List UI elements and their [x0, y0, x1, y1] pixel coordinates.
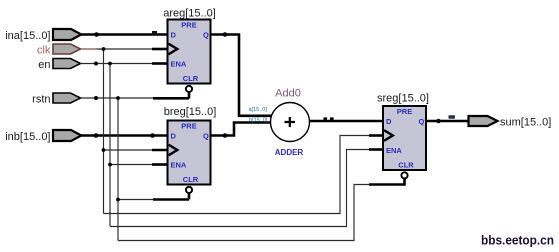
- wire clk stub areg: [152, 48, 168, 51]
- wire en stub sreg ENA: [369, 148, 383, 151]
- net tick ina: [152, 31, 157, 35]
- svg-text:Q: Q: [203, 30, 209, 39]
- wire breg Q to adder input B: [211, 123, 272, 136]
- svg-text:clk: clk: [37, 44, 51, 56]
- svg-text:sreg[15..0]: sreg[15..0]: [377, 93, 429, 105]
- junction dot clk top: [102, 47, 106, 51]
- input pin en: [38, 59, 80, 71]
- junction dot breg Q: [223, 133, 228, 138]
- svg-text:inb[15..0]: inb[15..0]: [5, 131, 50, 143]
- bus nub marks: [324, 117, 328, 121]
- junction dot sreg Q: [436, 119, 441, 124]
- svg-text:Add0: Add0: [275, 88, 301, 100]
- junction dot en: [94, 62, 98, 66]
- svg-text:bbs.eetop.cn: bbs.eetop.cn: [481, 233, 554, 248]
- wire en bottom run to sreg ENA: [110, 150, 369, 227]
- wire rstn vertical drop: [117, 98, 119, 241]
- junction dot rstn: [94, 96, 98, 100]
- input pin ina[15..0]: [5, 29, 81, 42]
- wire en branch breg ENA: [110, 164, 152, 166]
- wire rstn thick segment to breg CLR: [153, 198, 189, 201]
- svg-text:D: D: [171, 131, 177, 140]
- wire areg Q to adder input A: [211, 35, 272, 116]
- register breg: [164, 106, 217, 193]
- svg-text:CLR: CLR: [398, 160, 414, 169]
- svg-text:b[15..0]: b[15..0]: [249, 118, 268, 124]
- svg-text:rstn: rstn: [32, 93, 50, 105]
- junction dot ina: [94, 32, 99, 37]
- svg-text:PRE: PRE: [181, 21, 196, 30]
- junction dot en breg: [108, 163, 112, 167]
- junction dot en drop: [108, 62, 112, 66]
- junction dot rstn breg: [116, 198, 120, 202]
- adder Add0: [249, 88, 310, 158]
- wire sreg Q to sum output: [426, 120, 469, 123]
- svg-text:PRE: PRE: [397, 107, 412, 116]
- input pin rstn: [32, 93, 80, 105]
- svg-text:ina[15..0]: ina[15..0]: [5, 30, 50, 42]
- input pin clk: [37, 44, 80, 56]
- junction dot inb 1: [94, 133, 99, 138]
- wire clk maroon segment: [81, 48, 97, 50]
- wire areg CLR drop: [188, 92, 191, 99]
- svg-text:CLR: CLR: [183, 74, 199, 83]
- wire en to areg ENA: [81, 63, 153, 65]
- wire breg CLR drop: [188, 193, 191, 200]
- junction dot areg Q: [223, 32, 228, 37]
- wire clk stub breg: [152, 149, 169, 152]
- svg-text:breg[15..0]: breg[15..0]: [164, 106, 217, 118]
- svg-text:D: D: [171, 30, 177, 39]
- wire rstn to areg CLR: [81, 97, 190, 99]
- svg-text:PRE: PRE: [181, 122, 196, 131]
- wire en stub areg: [152, 62, 168, 65]
- register sreg: [377, 93, 429, 179]
- svg-text:CLR: CLR: [183, 175, 199, 184]
- output pin sum[15..0]: [469, 116, 552, 128]
- svg-text:areg[15..0]: areg[15..0]: [163, 8, 216, 20]
- svg-text:en: en: [38, 59, 50, 71]
- wire rstn branch breg CLR: [118, 199, 154, 201]
- svg-text:Q: Q: [419, 117, 425, 126]
- svg-text:a[15..0]: a[15..0]: [249, 107, 268, 113]
- wire clk bottom run to sreg clock: [104, 136, 370, 214]
- register areg: [163, 8, 216, 92]
- svg-text:ADDER: ADDER: [275, 148, 304, 157]
- svg-text:D: D: [386, 117, 392, 126]
- wire clk vertical drop: [103, 49, 105, 214]
- net label tick on sum wire: [449, 115, 455, 118]
- wire en stub breg ENA: [152, 163, 168, 166]
- wire en vertical drop: [109, 64, 111, 227]
- svg-text:ENA: ENA: [386, 146, 402, 155]
- wire rstn stub sreg CLR: [369, 179, 405, 185]
- svg-text:ENA: ENA: [171, 59, 187, 68]
- wire rstn thick segment to areg CLR: [153, 97, 189, 100]
- svg-text:ENA: ENA: [171, 160, 187, 169]
- svg-text:sum[15..0]: sum[15..0]: [500, 116, 551, 128]
- wire ina bus to areg D: [81, 33, 168, 36]
- svg-text:Q: Q: [203, 131, 209, 140]
- wire rstn bottom run to sreg CLR: [118, 185, 369, 241]
- wire clk to areg clock: [97, 48, 153, 50]
- junction dot inb 2: [150, 133, 155, 138]
- junction dot clk breg: [102, 148, 106, 152]
- input pin inb[15..0]: [5, 130, 81, 143]
- wire inb bus to breg D: [81, 134, 168, 137]
- wire adder out to sreg D: [310, 120, 384, 123]
- wire clk branch breg clock: [104, 149, 153, 151]
- wire clk stub sreg: [369, 134, 384, 137]
- junction dot rstn drop: [116, 96, 120, 100]
